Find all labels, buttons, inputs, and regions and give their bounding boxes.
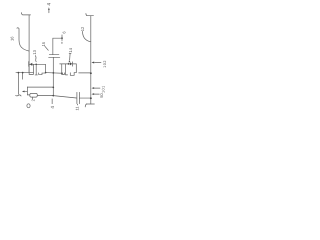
svg-text:11: 11 [75,106,80,111]
svg-text:101: 101 [102,85,106,93]
svg-text:12: 12 [80,26,85,31]
svg-text:102: 102 [103,60,107,68]
svg-text:4: 4 [50,106,55,109]
svg-text:16: 16 [10,36,15,41]
svg-text:6: 6 [61,31,66,34]
svg-text:50: 50 [99,93,104,98]
svg-text:15: 15 [41,41,46,46]
svg-text:4: 4 [46,3,52,6]
svg-text:14: 14 [68,47,73,52]
svg-text:13: 13 [32,49,37,54]
